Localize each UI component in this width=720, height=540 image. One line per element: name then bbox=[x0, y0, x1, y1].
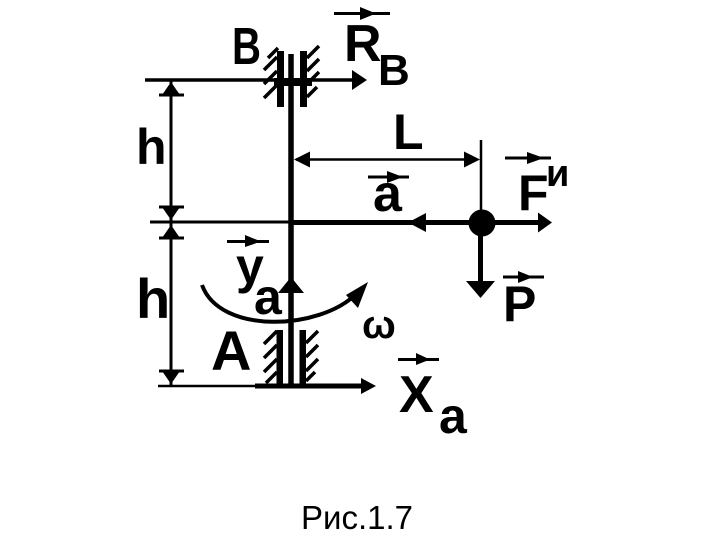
svg-text:B: B bbox=[232, 18, 261, 76]
svg-text:a: a bbox=[439, 388, 468, 444]
svg-text:X: X bbox=[399, 366, 434, 424]
svg-text:L: L bbox=[393, 104, 424, 160]
svg-text:a: a bbox=[254, 269, 283, 325]
svg-text:A: A bbox=[211, 319, 251, 382]
svg-text:B: B bbox=[378, 46, 410, 95]
svg-text:F: F bbox=[518, 165, 549, 221]
svg-text:h: h bbox=[136, 119, 167, 175]
svg-text:ω: ω bbox=[362, 303, 396, 347]
svg-text:P: P bbox=[503, 276, 536, 332]
svg-text:a: a bbox=[373, 165, 403, 223]
svg-text:R: R bbox=[344, 15, 382, 73]
svg-text:h: h bbox=[136, 267, 170, 330]
svg-text:и: и bbox=[546, 153, 569, 195]
svg-text:Рис.1.7: Рис.1.7 bbox=[301, 499, 413, 536]
